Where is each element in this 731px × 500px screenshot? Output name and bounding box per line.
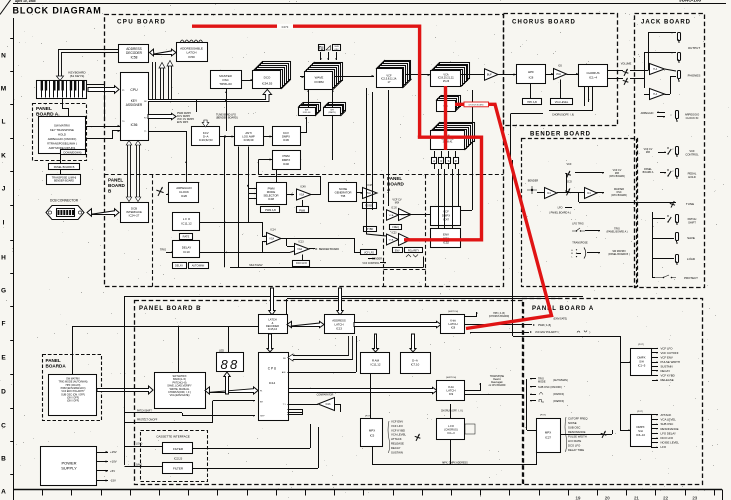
svg-text:SUB OSC: SUB OSC — [568, 426, 580, 430]
mpx address wire — [372, 447, 374, 465]
svg-text:VCA LEVEL: VCA LEVEL — [555, 101, 569, 104]
ARPEGGIO CLOCK IC26 — [169, 183, 199, 203]
RATE pot arpeggio — [158, 187, 163, 196]
svg-text:PHONES: PHONES — [688, 74, 701, 78]
bender tri IC1a — [545, 188, 558, 199]
boxed PWM A,B — [261, 207, 280, 213]
svg-text:HOLD: HOLD — [688, 175, 696, 179]
svg-text:HPF: HPF — [528, 70, 534, 74]
svg-text:L: L — [2, 118, 6, 125]
svg-text:(PANEL BOARD B ): (PANEL BOARD B ) — [608, 253, 629, 256]
svg-text:NOISE: NOISE — [339, 187, 348, 191]
svg-text:G: G — [1, 287, 6, 294]
svg-text:K: K — [1, 152, 6, 159]
svg-text:ENV MPX: ENV MPX — [177, 121, 189, 124]
ADDRESS DECODER IC58 — [119, 45, 149, 63]
svg-text:MPX: MPX — [545, 431, 551, 435]
svg-text:VOLUME: VOLUME — [621, 63, 632, 66]
svg-text:ENV: ENV — [395, 249, 400, 252]
svg-text:IC47: IC47 — [443, 217, 449, 221]
svg-text:DOWN/DOWN): DOWN/DOWN) — [63, 150, 81, 154]
jack board inner dashed — [636, 139, 638, 286]
svg-text:VCF: VCF — [567, 163, 572, 166]
svg-text:CPU: CPU — [130, 88, 138, 92]
svg-text:(ENV/GATE): (ENV/GATE) — [554, 317, 568, 320]
svg-text:T95: T95 — [341, 194, 346, 198]
svg-text:BUF: BUF — [487, 73, 492, 76]
cpu P2 output arrow — [148, 113, 176, 119]
svg-text:VCA: VCA — [389, 214, 394, 217]
svg-text:SW MATRIX: SW MATRIX — [54, 124, 70, 128]
panel a feeds — [513, 336, 620, 338]
wire keyboard to cpu arrow — [88, 86, 119, 94]
svg-text:IC10: IC10 — [183, 250, 190, 254]
boxed VCA LEVEL — [551, 99, 573, 105]
env stack pins ADSR — [432, 158, 437, 164]
svg-text:RESONANCE: RESONANCE — [568, 430, 586, 434]
svg-text:LFO DELAY: LFO DELAY — [661, 431, 677, 435]
right column wires — [652, 212, 654, 277]
svg-text:TRANSPOSE: TRANSPOSE — [572, 242, 588, 245]
svg-text:IC15,16: IC15,16 — [268, 327, 278, 331]
svg-text:IC5: IC5 — [370, 434, 375, 438]
svg-text:IC6~10: IC6~10 — [636, 433, 646, 437]
svg-text:(ON / OFF): (ON / OFF) — [67, 400, 79, 403]
bottom ruler ticks — [13, 490, 15, 496]
arrow to kcv da top — [202, 120, 209, 127]
HPF IC8 — [517, 65, 546, 84]
svg-text:VCF LFO: VCF LFO — [391, 424, 404, 428]
svg-text:PULSE WIDTH: PULSE WIDTH — [661, 360, 680, 364]
svg-text:T 1: T 1 — [283, 404, 286, 406]
dmpx2 list — [651, 414, 658, 416]
svg-text:VCF KYBD: VCF KYBD — [661, 374, 675, 378]
wire swmatrix to panel board b label — [60, 154, 62, 164]
svg-text:BLOCK DIAGRAM: BLOCK DIAGRAM — [13, 5, 102, 15]
boxed label PANEL BOARD B — [49, 164, 80, 170]
svg-text:(CPU BOARD): (CPU BOARD) — [611, 194, 627, 197]
BENDER BOARD outline — [522, 139, 638, 287]
svg-text:(CPU BOARD): (CPU BOARD) — [609, 175, 625, 178]
svg-text:A: A — [1, 488, 6, 495]
svg-text:SAVE: SAVE — [136, 464, 142, 467]
JACK BOARD outline — [635, 14, 705, 288]
svg-text:LFO RATE: LFO RATE — [568, 439, 581, 443]
main data bus horizontal — [148, 90, 272, 102]
svg-text:PANEL: PANEL — [46, 358, 61, 363]
svg-text:SUPPLY: SUPPLY — [61, 465, 77, 470]
svg-text:8: 8 — [221, 357, 229, 372]
PWM DMPX IC40 — [273, 151, 301, 170]
svg-text:PROTECT ON/OFF: PROTECT ON/OFF — [137, 420, 158, 422]
patch shift wire — [125, 412, 183, 414]
svg-text:April 10, 1985: April 10, 1985 — [15, 0, 36, 3]
WAVE FORM stack — [315, 63, 343, 81]
svg-text:OUTPUT: OUTPUT — [688, 46, 701, 50]
svg-text:MODE: MODE — [538, 381, 546, 384]
svg-text:VCA (ENV/GATE): VCA (ENV/GATE) — [170, 394, 190, 397]
MASTER OSC TR58-63 — [211, 71, 242, 89]
svg-text:IC36: IC36 — [283, 138, 289, 142]
svg-text:NOISE: NOISE — [568, 421, 577, 425]
svg-text:M: M — [1, 85, 6, 92]
svg-text:BOARD: BOARD — [108, 183, 126, 188]
red path main horizontal — [192, 26, 420, 137]
svg-text:IC14: IC14 — [270, 229, 276, 232]
wire into pwm dmpx — [258, 160, 260, 175]
svg-text:IC22,23: IC22,23 — [174, 458, 183, 461]
waveform top icons — [319, 45, 325, 51]
svg-text:KEY TRANSPOSE: KEY TRANSPOSE — [50, 128, 74, 132]
left border line — [13, 18, 15, 500]
svg-text:VCA: VCA — [556, 73, 561, 76]
long verticals to panel b lower — [512, 160, 514, 336]
svg-text:DCO: DCO — [566, 181, 572, 184]
save wire — [125, 466, 164, 468]
comparator wires — [288, 404, 319, 406]
S/H small stack left — [304, 103, 321, 111]
svg-text:IC7,10: IC7,10 — [411, 363, 420, 367]
svg-text:S: S — [448, 159, 450, 163]
svg-text:PANEL BOARD B: PANEL BOARD B — [54, 165, 75, 169]
svg-text:H.A: H.A — [653, 68, 657, 71]
svg-text:IC26: IC26 — [181, 194, 187, 198]
svg-text:DCO LFO: DCO LFO — [661, 436, 674, 440]
svg-text:PANEL: PANEL — [36, 106, 52, 112]
boxed KYBD — [364, 227, 377, 232]
svg-text:IC49: IC49 — [300, 186, 306, 189]
CHORUS BOARD outline — [504, 14, 618, 126]
svg-text:23: 23 — [692, 495, 697, 500]
svg-text:8: 8 — [230, 357, 238, 372]
LED display — [217, 353, 244, 372]
svg-text:IC38,39: IC38,39 — [244, 138, 254, 142]
svg-text:IC19,52,53: IC19,52,53 — [199, 138, 213, 142]
DCB INTERFACE IC24-27 — [121, 203, 149, 223]
svg-text:VCA: VCA — [297, 248, 302, 251]
svg-text:IC11,12: IC11,12 — [371, 363, 381, 367]
svg-text:SUB OSC (ON/OFF): SUB OSC (ON/OFF) — [538, 385, 562, 389]
svg-text:BOARD: BOARD — [387, 182, 405, 187]
RAM IC11,12 — [361, 353, 390, 374]
ENV MPX IC52 — [431, 229, 461, 248]
svg-text:KYBD: KYBD — [367, 228, 374, 231]
svg-text:JACK BOARD: JACK BOARD — [641, 20, 691, 26]
svg-text:HPF ( A ,B): HPF ( A ,B) — [493, 312, 505, 315]
svg-text:WAVE: WAVE — [315, 75, 324, 79]
red path vca vertical — [444, 86, 447, 150]
bus down arrows to RAM DA — [373, 334, 379, 352]
ANTI LOG AMP — [235, 127, 264, 146]
svg-text:SUB OSC: SUB OSC — [661, 422, 674, 426]
CPU board inner dashed separator — [105, 174, 504, 176]
svg-text:BENDER: BENDER — [528, 180, 539, 183]
svg-text:H: H — [1, 254, 6, 261]
jack wires — [648, 32, 650, 71]
svg-text:IC54,55: IC54,55 — [262, 82, 273, 86]
hpf chorus text — [465, 312, 477, 317]
svg-text:MULTI ENV: MULTI ENV — [249, 264, 262, 267]
svg-text:CHORUS BOARD: CHORUS BOARD — [512, 20, 576, 26]
svg-text:RATE: RATE — [183, 235, 190, 239]
mpx27 list — [565, 417, 567, 452]
filters — [163, 443, 193, 454]
PANEL BOARD A small outline (middle) — [383, 175, 385, 288]
svg-text:E: E — [1, 354, 6, 361]
KCV DA IC19,52,53 — [192, 127, 220, 146]
svg-text:MIX: MIX — [646, 151, 651, 154]
svg-text:LED: LED — [219, 349, 224, 353]
svg-text:LOAD: LOAD — [136, 443, 143, 446]
cpu DB hollow bus to address latch — [293, 336, 353, 360]
DMPX S/H IC1-5 — [631, 349, 652, 376]
headphone amps — [650, 64, 665, 75]
vca tri IC14 — [267, 233, 282, 245]
PWM MODE SELECTOR IC48 — [257, 183, 287, 205]
svg-text:CHORUS (OFF, I , II ): CHORUS (OFF, I , II ) — [441, 411, 463, 413]
svg-text:VCA: VCA — [269, 237, 274, 240]
LFO CHORUS IC1-3 — [437, 419, 465, 440]
output jack 1 — [678, 33, 681, 41]
svg-text:BOARD A: BOARD A — [643, 171, 654, 174]
svg-text:BENDER BOARD: BENDER BOARD — [530, 132, 591, 138]
svg-text:N: N — [1, 52, 6, 59]
svg-text:IC 20: IC 20 — [391, 208, 397, 210]
svg-text:J: J — [2, 185, 6, 192]
VCA stack — [440, 63, 470, 79]
boxed FREQ — [390, 225, 402, 230]
svg-text:PWM: PWM — [299, 209, 305, 212]
svg-text:JUNO-106: JUNO-106 — [679, 0, 701, 3]
svg-text:OSC: OSC — [334, 49, 339, 51]
bender board text — [309, 248, 315, 250]
POWER SUPPLY — [41, 447, 97, 486]
wire DCB to interface double arrow — [87, 209, 119, 217]
svg-text:IC56: IC56 — [131, 123, 138, 127]
keyboard 61 keys — [37, 81, 87, 99]
svg-text:DELAY: DELAY — [175, 265, 183, 268]
PATCH SHIFT — [667, 215, 668, 216]
svg-text:25,26: 25,26 — [443, 80, 450, 83]
keyboard arrow down — [59, 50, 120, 77]
svg-text:(CHORUS BOARD): (CHORUS BOARD) — [489, 315, 510, 318]
svg-text:TR58~63: TR58~63 — [219, 82, 232, 86]
svg-text:(61 KEYS): (61 KEYS) — [70, 74, 85, 78]
6bit LATCH IC8 — [441, 315, 465, 334]
svg-text:(SWITCH): (SWITCH) — [448, 311, 458, 313]
svg-text:A: A — [433, 159, 435, 163]
svg-text:VCF ENV: VCF ENV — [661, 356, 673, 360]
PANEL BOARD A left outline — [33, 104, 87, 161]
svg-text:D: D — [1, 388, 6, 395]
svg-text:IC6: IC6 — [558, 65, 562, 68]
svg-text:GENERATOR: GENERATOR — [335, 190, 352, 194]
svg-text:VCA: VCA — [389, 238, 394, 241]
svg-text:VCA LEVEL: VCA LEVEL — [661, 418, 677, 422]
arrow lower swmatrix to middle swmatrix — [97, 386, 153, 394]
bus curves decoder latch cpu — [153, 62, 156, 99]
svg-text:DCB CONNECTOR: DCB CONNECTOR — [50, 199, 79, 203]
svg-text:VCF ENV POLARITY (: VCF ENV POLARITY ( — [535, 331, 559, 334]
ENV stack — [441, 123, 475, 142]
svg-text:(POT): (POT) — [637, 411, 643, 413]
svg-text:NOISE LEVEL: NOISE LEVEL — [661, 441, 680, 445]
svg-text:IC14: IC14 — [269, 381, 276, 385]
svg-text:ATTACK: ATTACK — [661, 413, 672, 417]
bender wires and outputs — [557, 192, 584, 194]
svg-text:LOAD: LOAD — [687, 257, 696, 261]
ADDRESSABLE LATCH IC50 — [177, 43, 208, 62]
wire s/h right down — [332, 116, 334, 160]
CPU IC14 — [259, 353, 289, 421]
svg-text:ASSIGNER: ASSIGNER — [126, 103, 143, 107]
svg-text:IC1~4: IC1~4 — [589, 75, 597, 79]
vca tri IC6 — [554, 69, 567, 80]
NOISE GENERATOR T95 — [329, 183, 357, 202]
svg-text:R: R — [455, 159, 457, 163]
svg-text:VCF CUTOFF: VCF CUTOFF — [661, 351, 679, 355]
PROTECT switch — [655, 275, 676, 278]
boxed VCF LFO — [361, 250, 377, 255]
verticals vcf stack down — [366, 88, 368, 234]
wire master osc to DCO — [241, 80, 253, 82]
latch top cable loops — [180, 40, 184, 43]
left feed wire to latch decoder — [72, 326, 74, 374]
DCB connector icon — [46, 206, 84, 220]
protect wire — [125, 422, 214, 424]
SW MATRIX left upper — [39, 117, 86, 154]
LOAD jack — [676, 255, 679, 263]
svg-text:on CPU BOARD: on CPU BOARD — [489, 384, 506, 387]
svg-text:IC24~27: IC24~27 — [129, 214, 140, 218]
svg-text:PROTECT: PROTECT — [684, 276, 698, 280]
boxed RATE — [180, 234, 193, 240]
svg-text:+10V: +10V — [110, 460, 117, 464]
wires env to envmpx — [438, 169, 440, 229]
svg-text:-15V: -15V — [110, 479, 116, 483]
svg-text:RESONANCE: RESONANCE — [661, 427, 679, 431]
wire kcv dmpx to s/h — [300, 117, 307, 133]
wire master osc down — [226, 89, 228, 99]
wire dco to waveform — [300, 76, 304, 78]
cpu top bus arrows — [267, 334, 273, 352]
svg-text:0473: 0473 — [282, 25, 289, 29]
svg-text:D: D — [440, 159, 442, 163]
svg-text:CONTROL: CONTROL — [685, 152, 699, 156]
svg-text:FORM: FORM — [314, 80, 324, 84]
sum tri IC20 — [387, 210, 399, 221]
svg-text:IC11,12: IC11,12 — [181, 221, 192, 225]
svg-text:DECAY: DECAY — [661, 369, 671, 373]
wire pwm dmpx down — [276, 170, 278, 183]
dmpx1 list — [652, 348, 658, 350]
latch-decoder double arrow — [287, 321, 324, 327]
svg-text:IC61~66: IC61~66 — [303, 112, 312, 114]
LFO IC11,12 — [173, 213, 200, 231]
svg-text:FILTER: FILTER — [173, 447, 184, 451]
svg-text:(BENDER BOARD): (BENDER BOARD) — [216, 117, 238, 120]
boxed HPF A,B — [523, 99, 542, 105]
svg-text:C P U: C P U — [268, 367, 277, 371]
svg-text:CHORUS(OFF, I ,II): CHORUS(OFF, I ,II) — [552, 113, 574, 116]
long wires cpu to panels — [125, 296, 584, 298]
svg-text:CUTOFF FREQ: CUTOFF FREQ — [568, 417, 588, 421]
cpu-dcb hollow wires — [128, 145, 131, 197]
svg-text:IC13: IC13 — [336, 326, 342, 330]
svg-text:L FO: L FO — [448, 424, 454, 428]
svg-text:ARPEGGIO (ON/OFF): ARPEGGIO (ON/OFF) — [48, 137, 77, 141]
svg-text:21: 21 — [634, 495, 639, 500]
svg-text:MPX, DMPX ADDRESS: MPX, DMPX ADDRESS — [442, 462, 468, 465]
arpeggio wire to cpu T1 — [148, 132, 187, 183]
svg-text:IC23: IC23 — [392, 233, 398, 235]
boxed label TRANSPOSE BENDER BOARD — [47, 175, 81, 185]
svg-text:VCA: VCA — [299, 193, 304, 196]
svg-text:POLARITY: POLARITY — [408, 249, 420, 252]
pwm selector input wires — [248, 188, 256, 190]
hollow arrow into latch-decoder — [269, 288, 275, 315]
output jack 2 — [678, 53, 681, 61]
filter wires — [193, 448, 310, 450]
MPX IC27 — [537, 419, 561, 453]
svg-text:IC9: IC9 — [449, 392, 454, 396]
boxed DELAY AUTO/MAN — [173, 263, 187, 269]
svg-text:ARPEGGIO: ARPEGGIO — [641, 112, 654, 115]
svg-text:PANEL BOARD A: PANEL BOARD A — [532, 306, 594, 312]
page corner diagonal — [0, 0, 11, 15]
wires kcv chain — [220, 136, 234, 138]
SW MATRIX middle — [155, 373, 206, 409]
PANEL BOARD B big outline — [135, 301, 524, 485]
header rule — [13, 3, 726, 5]
wire buf to hpf — [498, 74, 516, 76]
svg-text:VCA LEVEL: VCA LEVEL — [391, 433, 407, 437]
load wire — [125, 446, 164, 448]
svg-text:Read A: Read A — [493, 378, 501, 381]
svg-text:ATTACK: ATTACK — [391, 437, 402, 441]
svg-text:(ON/OFF): (ON/OFF) — [553, 400, 564, 403]
svg-text:PWM A,B: PWM A,B — [265, 209, 276, 212]
svg-text:IC48: IC48 — [268, 197, 274, 201]
svg-text:LFO TRIG: LFO TRIG — [572, 223, 584, 226]
lfo delay wires — [200, 222, 249, 224]
svg-text:IC8: IC8 — [451, 325, 456, 329]
ADDRESS LATCH IC13 — [325, 315, 355, 334]
CPU BOARD outline — [105, 15, 504, 287]
svg-text:TRIG: TRIG — [160, 248, 166, 252]
svg-text:(CHORUS): (CHORUS) — [444, 427, 458, 431]
svg-text:(POT): (POT) — [638, 344, 644, 346]
PANEL BOARD A lower right outline — [523, 299, 703, 485]
bender tri IC1b — [585, 188, 598, 199]
svg-text:CPU BOARD: CPU BOARD — [117, 19, 166, 26]
ALE line — [288, 372, 357, 374]
svg-text:PANEL: PANEL — [387, 176, 402, 181]
led arrow — [224, 372, 230, 394]
svg-text:CHORUS: CHORUS — [586, 71, 599, 75]
svg-text:I: I — [3, 219, 5, 226]
svg-text:IC50: IC50 — [188, 55, 195, 59]
svg-text:PWM ( A ,B): PWM ( A ,B) — [538, 324, 551, 327]
tune wire — [579, 202, 676, 204]
svg-text:(DMPX): (DMPX) — [328, 112, 335, 114]
svg-text:PANEL: PANEL — [108, 178, 123, 183]
wire waveform to vcf — [334, 76, 374, 78]
waveform icon arrows — [320, 52, 322, 60]
VCF DMPX IC47 — [431, 207, 461, 226]
svg-text:(AUTO/MAN): (AUTO/MAN) — [553, 379, 568, 382]
wire da to mpx — [370, 373, 372, 419]
